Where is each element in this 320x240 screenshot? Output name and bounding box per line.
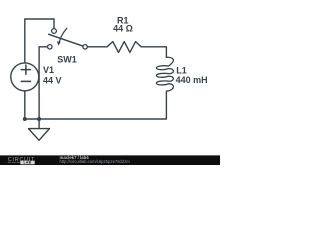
- svg-text:http://circuitlab.com/c6pz5p2e: http://circuitlab.com/c6pz5p2e76d2zm: [60, 159, 131, 164]
- svg-text:44 V: 44 V: [43, 75, 62, 85]
- svg-text:V1: V1: [43, 65, 54, 75]
- svg-text:SW1: SW1: [57, 54, 77, 64]
- svg-text:LAB: LAB: [23, 161, 31, 165]
- svg-text:44 Ω: 44 Ω: [113, 24, 133, 34]
- svg-text:440 mH: 440 mH: [176, 75, 208, 85]
- svg-text:L1: L1: [176, 65, 187, 75]
